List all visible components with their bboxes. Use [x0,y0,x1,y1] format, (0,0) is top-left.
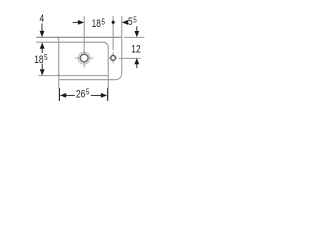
svg-text:185: 185 [92,16,105,30]
svg-text:55: 55 [128,14,137,28]
svg-text:4: 4 [39,13,44,25]
svg-text:265: 265 [76,87,89,101]
svg-text:12: 12 [131,43,140,55]
svg-text:185: 185 [34,52,47,66]
